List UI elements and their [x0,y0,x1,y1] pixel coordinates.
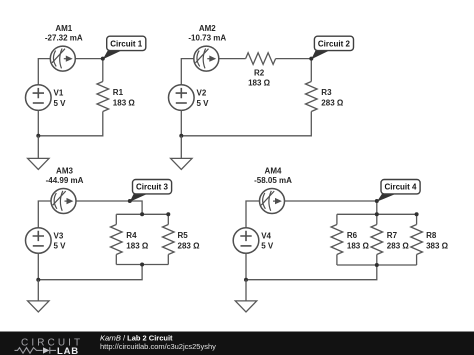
node Circuit 1 [101,57,105,61]
svg-text:183 Ω: 183 Ω [113,99,136,108]
svg-text:5 V: 5 V [197,99,210,108]
svg-text:R5: R5 [178,231,189,240]
voltage source V1 5 V [26,85,67,111]
ammeter AM1 -27.32 mA [45,24,83,71]
wire [337,213,417,215]
svg-text:AM2: AM2 [199,24,216,33]
svg-text:R2: R2 [254,69,265,78]
junction top bar [140,212,144,216]
resistor R6 183 Ω [331,225,369,255]
svg-text:-10.73 mA: -10.73 mA [188,34,226,43]
svg-text:R7: R7 [387,231,398,240]
junction bottom bar [375,263,379,267]
svg-text:5 V: 5 V [54,99,67,108]
node Circuit 2 [309,57,313,61]
wire [310,59,312,82]
svg-text:Circuit 2: Circuit 2 [318,39,351,48]
wire [102,59,104,82]
wire [38,59,50,85]
wire [116,213,168,215]
wire [37,253,39,279]
resistor R8 383 Ω [411,225,449,255]
ground [28,301,49,312]
wire [167,255,169,265]
resistor R4 183 Ω [111,225,149,255]
ground [28,158,49,169]
node Circuit 4 [375,199,379,203]
resistor R2 183 Ω [246,53,276,88]
svg-text:V4: V4 [261,231,271,240]
wire [416,255,418,266]
svg-text:R3: R3 [321,88,332,97]
resistor R5 283 Ω [163,225,201,255]
resistor R1 183 Ω [97,82,135,112]
junction R5 top [166,212,170,216]
wire [38,265,142,280]
svg-text:LAB: LAB [57,346,79,355]
logo resistor zigzag and diode into LAB [15,347,57,353]
svg-text:Circuit 1: Circuit 1 [110,39,143,48]
svg-text:AM1: AM1 [55,24,72,33]
junction bottom bar [140,263,144,267]
svg-text:AM4: AM4 [265,166,282,175]
svg-text:R8: R8 [426,231,437,240]
junction R8 top [415,212,419,216]
svg-text:283 Ω: 283 Ω [321,99,344,108]
wire [246,201,260,228]
ammeter AM4 -58.05 mA [254,166,292,213]
wire [115,255,117,265]
wire [37,136,39,159]
svg-text:183 Ω: 183 Ω [248,79,271,88]
junction top bar [375,212,379,216]
svg-text:183 Ω: 183 Ω [347,242,370,251]
svg-text:R4: R4 [126,231,137,240]
svg-text:-27.32 mA: -27.32 mA [45,34,83,43]
wire [246,265,377,280]
svg-text:R1: R1 [113,88,124,97]
wire [337,264,417,266]
svg-text:383 Ω: 383 Ω [426,242,449,251]
wire [416,214,418,224]
node flag Circuit 3 [130,180,172,202]
svg-text:Circuit 4: Circuit 4 [384,183,417,192]
wire [38,112,103,136]
wire [276,58,312,60]
voltage source V2 5 V [169,85,210,111]
voltage source V4 5 V [233,228,274,254]
wire [38,201,51,228]
wire [167,214,169,224]
ammeter AM2 -10.73 mA [188,24,226,71]
svg-text:5 V: 5 V [261,242,274,251]
wire [37,110,39,135]
ground [235,301,256,312]
wire [245,253,247,279]
wire [181,59,194,85]
svg-text:-44.99 mA: -44.99 mA [46,176,84,185]
svg-text:http://circuitlab.com/c3u2jcs2: http://circuitlab.com/c3u2jcs25yshy [100,342,216,351]
ground [171,158,192,169]
wire [37,280,39,301]
svg-text:AM3: AM3 [56,166,73,175]
wire [116,264,168,266]
wire [285,201,377,214]
svg-text:283 Ω: 283 Ω [387,242,410,251]
svg-text:-58.05 mA: -58.05 mA [254,176,292,185]
resistor R3 283 Ω [306,82,344,112]
wire [180,136,182,159]
svg-text:5 V: 5 V [54,242,67,251]
svg-text:283 Ω: 283 Ω [178,242,201,251]
node junction [244,278,248,282]
wire [181,112,311,136]
svg-text:V2: V2 [197,88,207,97]
wire [376,214,378,224]
voltage source V3 5 V [26,228,67,254]
svg-text:183 Ω: 183 Ω [126,242,149,251]
wire [336,214,338,224]
svg-text:V1: V1 [54,88,64,97]
node flag Circuit 4 [377,180,420,202]
wire [245,280,247,301]
node Circuit 3 [128,199,132,203]
ammeter AM3 -44.99 mA [46,166,84,213]
node junction [179,134,183,138]
wire [336,255,338,266]
svg-text:Circuit 3: Circuit 3 [136,183,169,192]
node junction [36,134,40,138]
wire [75,58,103,60]
wire [115,214,117,224]
footer bar [0,331,474,332]
node junction [36,278,40,282]
wire [76,201,142,214]
svg-text:R6: R6 [347,231,358,240]
resistor R7 283 Ω [371,225,409,255]
svg-text:V3: V3 [54,231,64,240]
wire [219,58,246,60]
node flag Circuit 2 [311,36,353,59]
wire [376,255,378,266]
node flag Circuit 1 [103,36,146,59]
wire [180,110,182,135]
